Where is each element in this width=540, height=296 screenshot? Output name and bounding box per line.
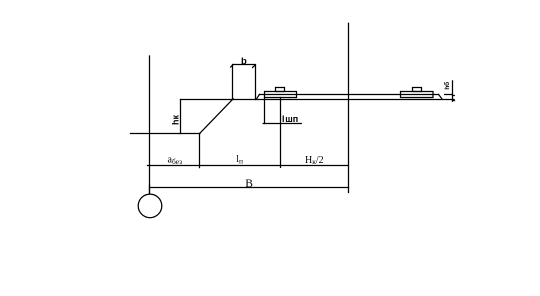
label b (241, 56, 247, 67)
svg-text:aбез: aбез (168, 155, 183, 166)
right rail head (413, 88, 422, 92)
svg-text:В: В (245, 178, 253, 190)
svg-text:Hк/2: Hк/2 (305, 155, 324, 166)
svg-text:lшп: lшп (282, 114, 298, 124)
dimension line 2 (B) (150, 187, 349, 189)
left rail head (276, 88, 285, 92)
excavation slope line (200, 99, 234, 134)
ballast right slope (break) (439, 95, 442, 99)
excavation bottom line (131, 133, 201, 135)
label h_б (rotated) (443, 82, 451, 90)
h_б dimension vertical (452, 81, 454, 101)
dimension line 1 (148, 165, 349, 167)
label h_к (rotated) (171, 115, 181, 125)
label H_к/2 (305, 155, 324, 166)
l_шп extension line (264, 98, 266, 124)
column (width b) (233, 65, 256, 100)
svg-text:lп: lп (236, 154, 243, 165)
crane track axis line (348, 23, 350, 192)
axis bubble circle (138, 194, 162, 218)
label a_без (168, 155, 183, 166)
h_к dimension extension (180, 100, 182, 134)
right sleeper box (401, 92, 434, 98)
left sleeper box (265, 92, 297, 98)
ground surface line (181, 99, 455, 101)
label l_шп (282, 114, 298, 124)
B left extension tick (149, 185, 151, 193)
svg-text:hб: hб (443, 82, 451, 90)
h_б small nub (453, 95, 455, 97)
ballast top line (259, 94, 438, 96)
h_б top tick (445, 94, 453, 96)
h_б bottom foot (453, 100, 455, 102)
left building axis line (149, 56, 151, 194)
b dimension tick left (231, 65, 234, 68)
label B (245, 178, 253, 190)
rail axis extension (divider l_п / H_к/2) (280, 98, 282, 168)
slope-foot extension line (divider a_без / l_п) (199, 134, 201, 168)
svg-text:hк: hк (171, 115, 181, 125)
label l_п (236, 154, 243, 165)
ballast left slope (256, 95, 259, 100)
b dimension tick right (253, 65, 255, 67)
l_шп dimension line (263, 123, 301, 125)
svg-text:b: b (241, 56, 247, 67)
